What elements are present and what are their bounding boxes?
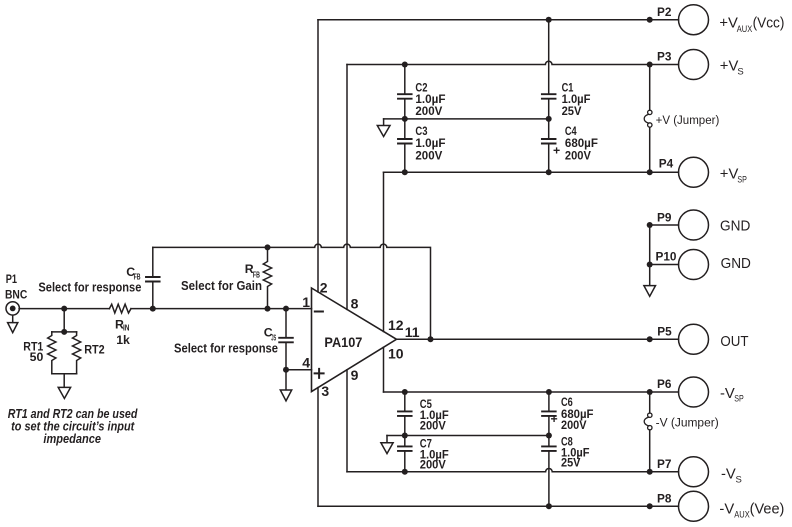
wire input net BNC to pin1 (19, 308, 109, 310)
svg-text:P6: P6 (657, 377, 672, 391)
svg-text:3: 3 (321, 383, 329, 399)
connector circle P10 (679, 250, 709, 280)
svg-text:50: 50 (30, 350, 44, 364)
wire +Vaux top rail to P2 (318, 19, 650, 21)
wire C2/C1 mid rail (384, 118, 549, 120)
node input RT (61, 306, 67, 312)
svg-text:+: + (553, 144, 560, 158)
wire pin3 column (317, 388, 319, 507)
svg-text:(Vcc): (Vcc) (753, 16, 785, 32)
node C2 top (402, 62, 408, 68)
svg-text:11: 11 (405, 324, 420, 340)
connector circle P7 (679, 457, 709, 487)
svg-text:RT2: RT2 (84, 342, 105, 356)
capacitor C6 (548, 392, 550, 410)
wire pin2 column (317, 20, 319, 292)
svg-text:8: 8 (351, 296, 359, 312)
connector circle P3 (679, 50, 709, 80)
capacitor C3 (404, 119, 406, 138)
wire jumper to P7 (649, 430, 651, 472)
node CJS pin4 (283, 367, 289, 373)
wire P9 to P10 to ground (649, 225, 651, 285)
ground below P10 (644, 286, 656, 297)
connector circle P6 (679, 377, 709, 407)
node C1-C4 (546, 116, 552, 122)
svg-text:AUX: AUX (737, 24, 753, 35)
svg-text:200V: 200V (420, 418, 447, 432)
capacitor CJS column (285, 309, 287, 337)
svg-text:SP: SP (734, 394, 744, 405)
svg-text:-V: -V (721, 467, 736, 483)
svg-text:P9: P9 (657, 210, 672, 224)
node P6 (647, 389, 653, 395)
node C3 bottom (402, 169, 408, 175)
svg-text:4: 4 (302, 355, 310, 371)
jumper +V (648, 110, 652, 114)
ground bottom mid (386, 436, 388, 443)
minus sign pin1 (315, 311, 323, 313)
node C5 top (402, 389, 408, 395)
wire +Vsp rail to P4 (384, 171, 650, 173)
connector circle P5 (679, 324, 709, 354)
node P3 (647, 62, 653, 68)
svg-text:9: 9 (351, 367, 359, 383)
svg-text:-V (Jumper): -V (Jumper) (656, 416, 719, 430)
svg-text:P7: P7 (657, 457, 672, 471)
wire pin8 column (346, 65, 348, 310)
svg-text:(Vee): (Vee) (750, 502, 785, 518)
svg-text:OUT: OUT (720, 334, 748, 350)
wire pin4 from CJS (286, 369, 312, 371)
wire pin10 column (383, 347, 385, 392)
node input/RT junction column (63, 309, 65, 332)
ground top mid (383, 119, 385, 125)
node P8 (647, 503, 653, 509)
capacitor CFB column (152, 247, 154, 276)
svg-text:P5: P5 (657, 325, 672, 339)
node CFB bottom (150, 306, 156, 312)
svg-text:P3: P3 (657, 50, 672, 64)
ground below RT (63, 374, 65, 387)
node C2-C3 (402, 116, 408, 122)
svg-text:FB: FB (134, 273, 141, 282)
svg-text:P4: P4 (659, 156, 674, 170)
svg-text:FB: FB (253, 270, 260, 279)
svg-text:200V: 200V (420, 458, 447, 472)
svg-text:-V: -V (719, 502, 734, 518)
node C6 top (546, 389, 552, 395)
wire pin9 column (346, 370, 348, 472)
wire -Vaux rail to P8 (318, 505, 650, 507)
svg-text:GND: GND (720, 218, 750, 234)
svg-text:+V: +V (720, 58, 739, 74)
connector circle P8 (679, 491, 709, 521)
plus sign pin4 (315, 369, 324, 378)
node feedback-output (428, 336, 434, 342)
connector circle P2 (679, 5, 709, 35)
op-amp U1 PA107 (312, 288, 397, 392)
svg-text:12: 12 (388, 317, 404, 333)
capacitor C7 (404, 436, 406, 446)
node C5-C7 (402, 433, 408, 439)
capacitor C1 (548, 20, 550, 94)
svg-text:P1: P1 (6, 272, 18, 286)
node P7 (647, 469, 653, 475)
resistor RT1 (48, 332, 56, 374)
svg-text:25V: 25V (561, 456, 581, 470)
resistor RT2 (73, 332, 81, 374)
wire output net pin11 to P5 (397, 338, 650, 340)
wire P6 to jumper (649, 392, 651, 413)
wire pin12 column (383, 172, 385, 331)
capacitor C4 (548, 119, 550, 138)
svg-text:-V: -V (720, 386, 735, 402)
node C6-C8 (546, 433, 552, 439)
wire C5/C6 mid rail (387, 435, 549, 437)
node P10 (647, 262, 653, 268)
jumper -V (648, 413, 652, 417)
resistor RFB (263, 247, 271, 308)
svg-text:P8: P8 (657, 492, 672, 506)
wire -Vsp rail to P6 (384, 391, 650, 393)
wire feedback net (hops over pin2,8,12 columns) (153, 244, 431, 339)
node RFB top (265, 244, 271, 250)
node RFB bottom (265, 306, 271, 312)
svg-text:S: S (736, 474, 742, 485)
svg-text:+V: +V (720, 167, 739, 183)
svg-text:PA107: PA107 (324, 334, 362, 350)
svg-text:200V: 200V (561, 418, 587, 432)
svg-text:S: S (737, 66, 743, 77)
capacitor C8 (548, 436, 550, 446)
svg-text:1: 1 (302, 294, 310, 310)
svg-text:BNC: BNC (5, 287, 28, 301)
node P5 (647, 336, 653, 342)
svg-text:200V: 200V (565, 148, 592, 162)
wire jumper to P4 (649, 127, 651, 172)
svg-text:200V: 200V (415, 148, 443, 162)
svg-text:Select for Gain: Select for Gain (181, 279, 262, 293)
node CJS top (283, 306, 289, 312)
node P4 (647, 169, 653, 175)
capacitor C5 (404, 392, 406, 410)
svg-text:Select for response: Select for response (174, 342, 278, 356)
svg-text:25V: 25V (562, 104, 583, 118)
svg-text:+V (Jumper): +V (Jumper) (656, 113, 720, 127)
svg-text:SP: SP (737, 175, 747, 186)
svg-text:IN: IN (123, 324, 130, 333)
svg-text:2: 2 (320, 280, 328, 296)
svg-text:+V: +V (719, 16, 738, 32)
ground below BNC (12, 315, 14, 322)
wire -Vs rail to P7 (hop over C8 column) (347, 468, 650, 471)
node RT split (61, 329, 67, 335)
connector P1 BNC (6, 302, 19, 315)
svg-text:P10: P10 (656, 249, 677, 263)
node C1 top (546, 17, 552, 23)
wire +Vs rail to P3 (hop over C1 column) (347, 61, 650, 64)
svg-text:1k: 1k (116, 333, 130, 347)
node P2 (647, 17, 653, 23)
connector circle P4 (679, 157, 709, 187)
svg-text:impedance: impedance (43, 431, 101, 446)
wire RT rails (52, 331, 77, 333)
node P9 (647, 222, 653, 228)
svg-text:GND: GND (721, 256, 751, 272)
svg-text:AUX: AUX (734, 509, 750, 520)
svg-text:10: 10 (388, 346, 404, 362)
svg-text:Select for response: Select for response (38, 281, 141, 295)
node C7 bottom (402, 469, 408, 475)
capacitor C2 (404, 65, 406, 94)
svg-text:P2: P2 (657, 5, 672, 19)
node C8 bottom (546, 503, 552, 509)
resistor RIN zigzag (109, 304, 131, 313)
svg-text:200V: 200V (415, 104, 443, 118)
node C4 bottom (546, 169, 552, 175)
svg-text:+: + (551, 412, 558, 426)
wire P3 to jumper (649, 65, 651, 111)
ground below CJS (285, 370, 287, 390)
connector circle P9 (679, 210, 709, 240)
